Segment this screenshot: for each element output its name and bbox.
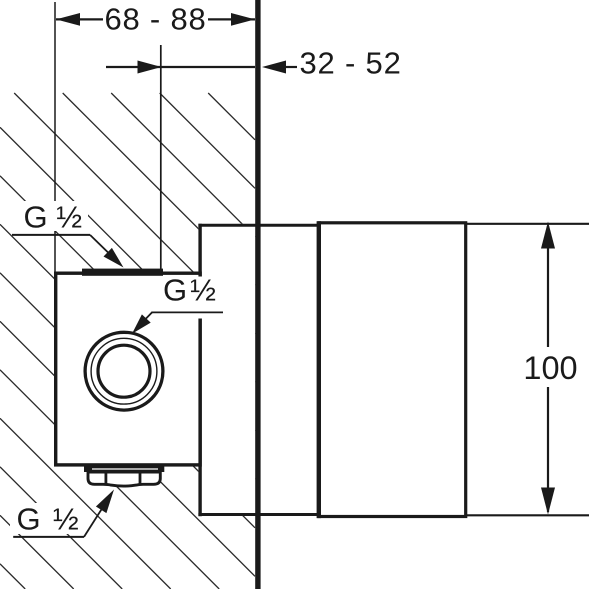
- svg-text:G ½: G ½: [17, 502, 81, 537]
- valve body: [56, 273, 200, 465]
- label G 1/2 top-left white bg: [16, 201, 88, 231]
- dim line 100 lower segment: [547, 387, 549, 512]
- extension line bottom right: [466, 514, 589, 516]
- nut face line left: [105, 472, 108, 485]
- leader arrowhead top-left: [104, 248, 124, 268]
- leader arrowhead middle: [132, 314, 151, 333]
- functional unit top edge: [198, 224, 318, 227]
- extension line top right: [466, 223, 589, 225]
- wall hatching: [0, 93, 255, 589]
- arrow left 68-88: [56, 13, 80, 26]
- hex nut body: [88, 472, 160, 486]
- dim line 100 upper segment: [547, 226, 549, 347]
- svg-text:100: 100: [523, 350, 577, 386]
- extension line left (68-88): [54, 2, 56, 272]
- leader diagonal middle: [140, 312, 153, 325]
- valve body right edge: [198, 224, 201, 516]
- middle circle: [91, 338, 157, 404]
- svg-text:32 - 52: 32 - 52: [300, 45, 402, 80]
- leader diagonal top-left: [90, 235, 112, 256]
- niche white cutout (valve recess): [54, 272, 202, 467]
- label G 1/2 bottom white bg: [10, 503, 84, 534]
- dim line 32-52: [106, 66, 255, 68]
- box left edge emphasis: [317, 221, 321, 518]
- top connection black bar G1/2: [82, 269, 163, 276]
- arrow left-point 32-52 at wall: [262, 61, 286, 74]
- extension line mid (32-52): [160, 45, 162, 270]
- leader horizontal middle: [152, 311, 223, 313]
- leader diagonal bottom: [84, 507, 103, 537]
- through-wall white cutout: [198, 224, 255, 516]
- inner circle: [98, 345, 150, 397]
- svg-text:G ½: G ½: [24, 199, 83, 234]
- tail 32-52: [284, 66, 297, 68]
- arrow right 68-88: [231, 13, 255, 26]
- wall surface line: [255, 0, 260, 589]
- svg-text:G½: G½: [163, 273, 219, 308]
- label underline bottom: [13, 536, 84, 538]
- outer circle (front connection): [85, 332, 163, 410]
- functional unit bottom edge: [198, 513, 318, 516]
- outer box (cartridge housing): [319, 223, 466, 517]
- label underline top-left: [12, 234, 90, 236]
- arrow right-point 32-52: [138, 61, 162, 74]
- dim line 68-88 right segment: [208, 18, 255, 20]
- arrow up 100: [541, 222, 555, 249]
- label G1/2 middle white bg: [159, 277, 224, 319]
- dim line 68-88 left segment: [56, 18, 103, 20]
- leader arrowhead bottom: [96, 490, 114, 514]
- bottom flange bar: [84, 466, 164, 472]
- svg-text:68 - 88: 68 - 88: [104, 1, 206, 36]
- arrow down 100: [541, 488, 555, 515]
- nut face line right: [139, 472, 142, 485]
